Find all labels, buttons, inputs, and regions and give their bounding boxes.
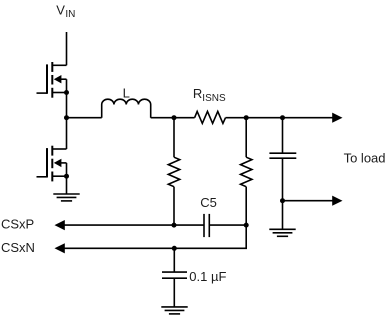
transistor Q1 high-side NMOS	[37, 62, 70, 98]
wire RISNS to node C	[226, 117, 247, 119]
arrow CSxP	[55, 220, 205, 230]
wire C5 right plate to R2 node	[209, 224, 246, 226]
arrow CSxN	[55, 243, 175, 253]
svg-text:To load: To load	[344, 150, 386, 165]
capacitor COUT	[269, 118, 296, 201]
ground bottom	[161, 307, 187, 314]
node B junction	[172, 115, 177, 120]
transistor Q2 low-side NMOS	[37, 118, 70, 182]
wire switch node to inductor	[67, 117, 102, 119]
svg-text:V: V	[56, 3, 65, 18]
svg-text:0.1 µF: 0.1 µF	[189, 269, 226, 284]
inductor L	[102, 86, 151, 118]
svg-text:CSxN: CSxN	[1, 240, 35, 255]
ground output	[269, 229, 295, 236]
wire Q1 source to switch node	[66, 93, 68, 118]
node C junction	[244, 115, 249, 120]
wire node E to ground	[282, 201, 284, 230]
svg-text:L: L	[123, 86, 130, 101]
net label VIN	[56, 3, 75, 20]
resistor RISNS	[193, 86, 226, 123]
wire Q2 source to ground	[66, 176, 68, 194]
svg-text:R: R	[193, 86, 202, 101]
node D junction	[280, 115, 285, 120]
wire VIN to Q1 drain	[66, 32, 68, 65]
node C5R junction	[244, 223, 249, 228]
resistor R2 right sense	[241, 118, 252, 225]
svg-text:IN: IN	[65, 9, 75, 20]
arrow to load bottom	[283, 196, 343, 206]
node CSxN junction	[172, 246, 177, 251]
svg-text:C5: C5	[200, 195, 217, 210]
capacitor C5	[200, 195, 217, 237]
wire inductor to node B	[151, 117, 195, 119]
resistor R1 left sense	[168, 118, 179, 225]
svg-text:CSxP: CSxP	[1, 217, 34, 232]
capacitor C decoupling 0.1uF	[162, 248, 226, 307]
node E junction	[280, 198, 285, 203]
wire node C to node D	[246, 117, 282, 119]
node CSxP junction	[172, 223, 177, 228]
ground Q2	[53, 194, 79, 201]
svg-text:ISNS: ISNS	[202, 93, 226, 104]
wire R2 down to CSxN corner	[174, 225, 246, 248]
node SW junction	[64, 115, 69, 120]
arrow to load top	[283, 113, 343, 123]
